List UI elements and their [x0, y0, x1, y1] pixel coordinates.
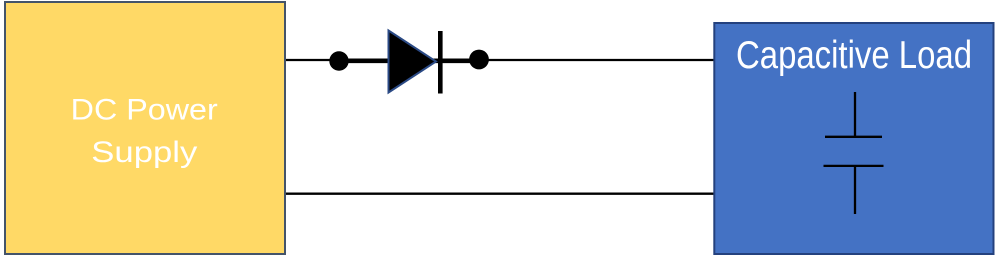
svg-text:DC Power: DC Power — [71, 93, 218, 126]
svg-text:Supply: Supply — [91, 136, 197, 169]
svg-text:Capacitive Load: Capacitive Load — [736, 34, 972, 77]
